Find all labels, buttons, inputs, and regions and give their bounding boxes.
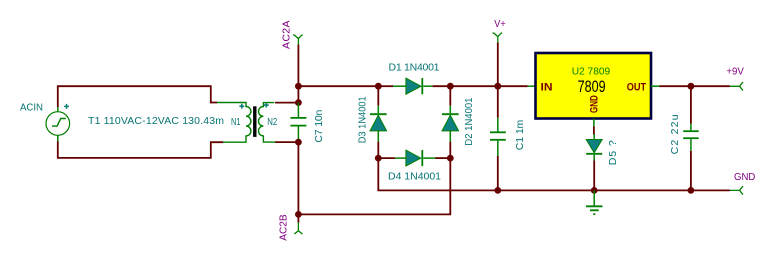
junction C2 top	[688, 83, 695, 90]
svg-text:OUT: OUT	[627, 81, 647, 93]
svg-text:N2: N2	[267, 116, 277, 128]
diode D3	[370, 106, 387, 142]
port V+	[493, 33, 503, 43]
svg-text:U2 7809: U2 7809	[572, 66, 611, 78]
wire AC2A junction to N2 junction	[297, 86, 299, 102]
wire AC2B to bridge	[298, 158, 450, 214]
diode D2	[442, 106, 459, 142]
wire D1 right	[433, 85, 451, 87]
wire D3 bottom	[377, 142, 379, 159]
junction AC2B	[295, 211, 302, 218]
svg-text:C7 10n: C7 10n	[313, 109, 325, 142]
junction bridge top-right	[447, 83, 454, 90]
svg-text:GND: GND	[589, 95, 601, 113]
wire D2 bottom	[449, 142, 451, 159]
svg-text:D5 ?: D5 ?	[607, 140, 619, 165]
junction N2/C7 top	[295, 99, 302, 106]
diode D5	[586, 134, 602, 161]
svg-text:T1 110VAC-12VAC 130.43m: T1 110VAC-12VAC 130.43m	[88, 115, 224, 127]
ground symbol	[586, 190, 603, 214]
svg-text:D3 1N4001: D3 1N4001	[356, 96, 368, 143]
wire D1 left	[378, 85, 393, 87]
junction C2 bottom	[688, 187, 695, 194]
svg-text:GND: GND	[734, 171, 756, 183]
svg-text:C2 22u: C2 22u	[669, 114, 681, 154]
svg-text:V+: V+	[494, 18, 505, 30]
diode D1	[393, 78, 432, 94]
wire N2 bottom to junction	[275, 141, 298, 143]
capacitor C7	[290, 103, 306, 141]
junction bridge bottom-left	[375, 155, 382, 162]
wire D5 to ground rail	[593, 161, 595, 191]
wire D3 top	[377, 86, 379, 105]
capacitor C2	[683, 86, 699, 190]
capacitor C1	[490, 86, 506, 190]
svg-text:AC2B: AC2B	[278, 214, 290, 241]
svg-text:AC2A: AC2A	[280, 21, 292, 50]
junction AC2A/top rail	[295, 83, 302, 90]
svg-text:D2 1N4001: D2 1N4001	[463, 97, 475, 145]
port GND right	[730, 186, 743, 194]
wire primary top rail	[58, 86, 217, 107]
wire primary bottom rail	[58, 141, 223, 158]
plus mark of ACIN	[64, 104, 69, 109]
winding N2	[259, 103, 276, 143]
port +9V	[730, 82, 743, 90]
port AC2B	[294, 214, 302, 234]
wire D2 top	[449, 86, 451, 105]
wire N2 top to junction	[275, 102, 298, 104]
wire bridge bottom-left to ground rail	[378, 158, 730, 190]
wire down to AC2B	[297, 142, 299, 214]
svg-text:D1 1N4001: D1 1N4001	[389, 62, 440, 74]
svg-text:IN: IN	[541, 81, 553, 93]
junction bridge top-left	[375, 83, 382, 90]
wire bridge to regulator	[450, 85, 527, 87]
svg-text:ACIN: ACIN	[20, 102, 43, 114]
junction N2 bottom/C7 bottom	[295, 139, 302, 146]
wire regulator GND to D5	[593, 127, 595, 135]
wire AC2A down	[297, 45, 299, 87]
wire D4 right	[435, 157, 450, 159]
AC source ACIN	[46, 107, 70, 142]
plus mark N1	[239, 104, 244, 109]
wire secondary top rail to bridge	[298, 85, 378, 87]
svg-text:D4 1N4001: D4 1N4001	[388, 170, 441, 182]
svg-text:7809: 7809	[578, 77, 606, 96]
wire V+ down	[497, 43, 499, 87]
port AC2A	[293, 35, 303, 45]
svg-text:+9V: +9V	[726, 66, 744, 78]
core	[253, 106, 256, 137]
transformer T1	[217, 103, 275, 143]
junction V+/top rail	[494, 83, 501, 90]
winding N1	[217, 103, 251, 143]
svg-text:N1: N1	[231, 116, 241, 128]
svg-text:C1 1m: C1 1m	[514, 119, 526, 150]
diode D4	[395, 150, 435, 166]
junction bridge bottom-right	[447, 155, 454, 162]
junction D5/ground rail	[591, 187, 598, 194]
plus mark N2	[264, 103, 269, 108]
wire regulator OUT to +9V	[660, 85, 730, 87]
op-amp U2 regulator 7809	[528, 53, 660, 127]
wire D4 left	[378, 157, 395, 159]
junction C1 bottom	[494, 187, 501, 194]
